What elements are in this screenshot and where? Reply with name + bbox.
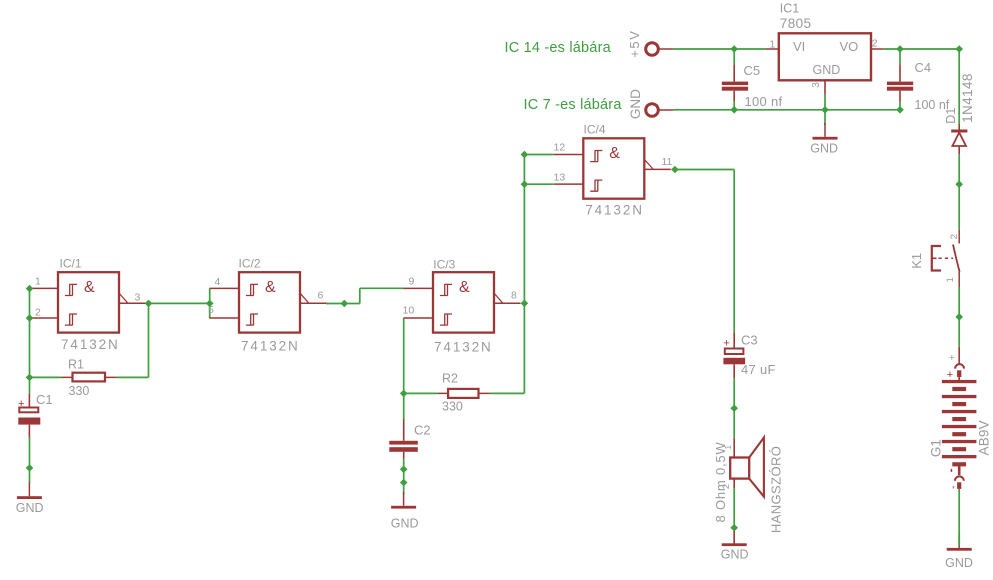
svg-text:GND: GND	[945, 556, 973, 570]
svg-text:13: 13	[554, 172, 566, 184]
svg-text:74132N: 74132N	[61, 337, 120, 352]
svg-text:4: 4	[215, 276, 221, 288]
svg-text:100 nf: 100 nf	[745, 94, 783, 109]
svg-text:330: 330	[442, 400, 463, 414]
svg-text:GND: GND	[391, 517, 419, 531]
svg-text:GND: GND	[721, 548, 749, 562]
svg-text:1: 1	[35, 276, 41, 288]
svg-text:C3: C3	[741, 333, 758, 348]
svg-text:1: 1	[723, 445, 733, 450]
svg-text:12: 12	[554, 142, 566, 154]
svg-text:2: 2	[872, 38, 878, 50]
svg-text:2: 2	[949, 234, 960, 239]
svg-text:GND: GND	[628, 89, 643, 119]
svg-text:AB9V: AB9V	[977, 420, 992, 455]
svg-text:D1: D1	[944, 108, 958, 124]
svg-text:R2: R2	[442, 371, 458, 385]
svg-text:IC/2: IC/2	[239, 256, 261, 270]
svg-text:1: 1	[770, 39, 776, 51]
svg-text:R1: R1	[68, 358, 84, 372]
svg-text:8 Ohm 0,5W: 8 Ohm 0,5W	[713, 442, 728, 523]
svg-text:VO: VO	[840, 39, 859, 54]
svg-text:+5V: +5V	[627, 29, 642, 57]
svg-text:3: 3	[135, 292, 141, 304]
svg-text:8: 8	[511, 289, 517, 301]
svg-text:+: +	[947, 369, 953, 381]
svg-text:9: 9	[409, 275, 415, 287]
svg-text:C2: C2	[414, 423, 431, 438]
svg-text:+: +	[949, 352, 955, 364]
svg-text:2: 2	[35, 306, 41, 318]
svg-text:3: 3	[811, 82, 822, 88]
svg-text:74132N: 74132N	[585, 203, 644, 218]
svg-text:K1: K1	[909, 253, 924, 269]
svg-text:1N4148: 1N4148	[960, 73, 975, 123]
svg-text:C5: C5	[744, 63, 761, 78]
svg-text:1: 1	[945, 277, 956, 282]
svg-text:2: 2	[721, 484, 732, 489]
svg-text:IC/1: IC/1	[60, 256, 82, 270]
svg-text:C1: C1	[36, 392, 53, 407]
svg-text:IC1: IC1	[780, 2, 800, 16]
svg-text:IC/3: IC/3	[433, 258, 455, 272]
svg-text:GND: GND	[810, 141, 838, 155]
svg-text:IC 7 -es lábára: IC 7 -es lábára	[524, 97, 623, 113]
svg-text:6: 6	[318, 289, 324, 301]
svg-text:GND: GND	[16, 501, 44, 515]
svg-text:IC 14 -es lábára: IC 14 -es lábára	[505, 40, 612, 56]
svg-text:74132N: 74132N	[241, 339, 300, 354]
svg-text:IC/4: IC/4	[584, 122, 606, 136]
svg-text:10: 10	[403, 304, 415, 316]
svg-text:+: +	[723, 338, 729, 350]
svg-text:7805: 7805	[780, 16, 812, 31]
svg-text:11: 11	[662, 156, 673, 168]
svg-text:G1: G1	[929, 439, 944, 457]
svg-text:+: +	[18, 398, 24, 410]
svg-text:HANGSZÓRÓ: HANGSZÓRÓ	[769, 446, 784, 533]
svg-text:GND: GND	[813, 63, 841, 77]
svg-text:C4: C4	[915, 60, 932, 75]
svg-text:74132N: 74132N	[434, 340, 493, 355]
svg-text:47 uF: 47 uF	[741, 362, 776, 377]
svg-text:VI: VI	[793, 39, 805, 54]
svg-text:330: 330	[69, 384, 90, 398]
